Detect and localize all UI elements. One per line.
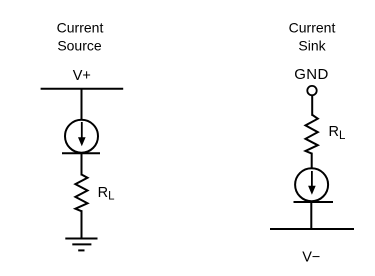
title: Current Source (57, 20, 104, 54)
title: Current Sink (289, 20, 336, 54)
wire from resistor RL down to ground (81, 210, 83, 238)
current source I1 arrow (points down) (78, 122, 86, 146)
svg-text:GND: GND (294, 66, 329, 83)
svg-text:V−: V− (302, 249, 320, 265)
current source I1 (circle) (65, 120, 98, 153)
resistor RL (left) (75, 175, 87, 212)
GND terminal (open circle) (307, 86, 316, 95)
svg-text:Sink: Sink (298, 38, 326, 54)
current sink I2 (circle) (295, 168, 328, 201)
wire V+ rail (41, 88, 124, 90)
svg-text:RL: RL (329, 124, 346, 142)
svg-text:Current: Current (289, 20, 336, 36)
resistor RL (right) (306, 115, 318, 154)
ground symbol (65, 239, 97, 251)
wire from bar down to V- rail (310, 202, 312, 229)
bar at current source output node (62, 152, 100, 154)
svg-text:V+: V+ (73, 68, 91, 84)
svg-text:RL: RL (98, 185, 115, 203)
current sink I2 arrow (points down) (308, 171, 316, 195)
wire from bar down to resistor RL (81, 153, 83, 175)
wire from resistor RL down to current sink I2 (311, 153, 313, 169)
svg-text:Source: Source (57, 38, 102, 54)
svg-text:Current: Current (57, 20, 104, 36)
bar at current sink input node (294, 201, 334, 203)
wire V- rail (270, 228, 354, 230)
wire from V+ rail down to current source I1 (81, 89, 83, 120)
wire from GND terminal down to resistor RL (311, 96, 313, 116)
